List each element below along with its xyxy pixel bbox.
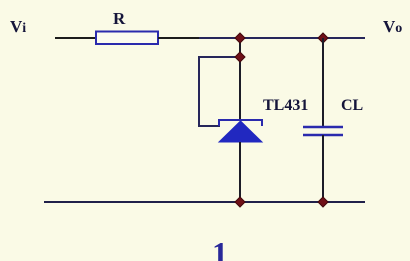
wire node A to node B bbox=[240, 37, 323, 39]
wire feedback to reference pin bbox=[198, 125, 220, 127]
node E junction on rail bbox=[318, 197, 328, 207]
wire feedback vertical bbox=[198, 56, 200, 126]
TL431 U1 bbox=[219, 120, 262, 142]
ground rail wire bbox=[44, 201, 365, 203]
capacitor CL bbox=[303, 127, 343, 135]
svg-text:CL: CL bbox=[341, 97, 363, 114]
resistor R bbox=[96, 32, 158, 45]
wire feedback horizontal node C to left bbox=[199, 56, 240, 58]
wire capacitor CL to ground rail bbox=[322, 135, 324, 202]
node C feedback junction bbox=[235, 52, 245, 62]
node D junction on rail bbox=[235, 197, 245, 207]
node B junction bbox=[318, 33, 328, 43]
wire node B to Vo bbox=[323, 37, 365, 39]
svg-text:TL431: TL431 bbox=[263, 97, 308, 114]
wire Vi to resistor R bbox=[55, 37, 96, 39]
node A junction bbox=[235, 33, 245, 43]
wire resistor R to node A bbox=[158, 37, 199, 39]
wire node B down to capacitor CL bbox=[322, 38, 324, 127]
svg-text:1: 1 bbox=[212, 235, 228, 261]
wire node A down to TL431 cathode bbox=[239, 38, 241, 121]
svg-text:R: R bbox=[113, 9, 126, 28]
wire TL431 anode to ground rail bbox=[239, 142, 241, 202]
